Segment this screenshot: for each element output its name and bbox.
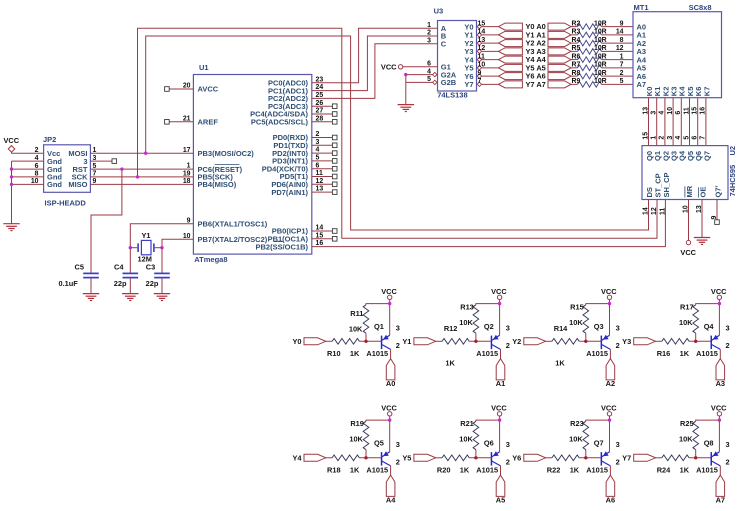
svg-text:1K: 1K bbox=[445, 359, 455, 368]
svg-text:74HC595: 74HC595 bbox=[728, 165, 737, 197]
junction VCC (Q1) bbox=[388, 302, 391, 305]
svg-text:C: C bbox=[441, 39, 447, 48]
svg-text:R13: R13 bbox=[460, 303, 474, 312]
capacitor C4 22p bbox=[114, 263, 138, 288]
ground (74LS138 enables) bbox=[398, 105, 414, 112]
svg-text:Q4: Q4 bbox=[704, 322, 715, 331]
svg-text:2: 2 bbox=[620, 70, 624, 77]
svg-text:2: 2 bbox=[616, 457, 620, 466]
svg-text:13: 13 bbox=[642, 107, 649, 115]
svg-text:MISO: MISO bbox=[68, 180, 87, 189]
net A (PC0 to 74LS138 A) bbox=[312, 28, 438, 83]
port A5 bbox=[496, 475, 505, 504]
svg-text:6: 6 bbox=[675, 111, 682, 115]
svg-text:10K: 10K bbox=[679, 318, 693, 327]
port A7 bbox=[716, 475, 725, 504]
svg-text:9: 9 bbox=[620, 20, 624, 27]
svg-text:C3: C3 bbox=[146, 263, 155, 272]
port A3 bbox=[716, 359, 725, 388]
svg-text:18: 18 bbox=[183, 178, 191, 185]
transistor Q3 A1015 bbox=[586, 322, 620, 358]
svg-text:SH_CP: SH_CP bbox=[662, 172, 671, 197]
svg-text:7: 7 bbox=[620, 62, 624, 69]
svg-text:4: 4 bbox=[659, 111, 666, 115]
svg-text:3: 3 bbox=[726, 440, 730, 449]
svg-text:OE: OE bbox=[698, 187, 707, 198]
junction VCC (Q8) bbox=[718, 418, 721, 421]
svg-text:8: 8 bbox=[35, 171, 39, 178]
svg-text:A0: A0 bbox=[386, 379, 395, 388]
ground (C3) bbox=[154, 294, 170, 301]
svg-text:Y2: Y2 bbox=[512, 337, 521, 346]
svg-text:Q3: Q3 bbox=[594, 322, 604, 331]
wire JP2 gnd pin bbox=[12, 168, 44, 170]
svg-text:VCC: VCC bbox=[711, 404, 727, 413]
svg-text:AREF: AREF bbox=[198, 118, 219, 127]
74LS138 Y0 output bubble/wire pin 15 bbox=[477, 20, 498, 28]
junction VCC (Q4) bbox=[718, 302, 721, 305]
svg-text:Y0: Y0 bbox=[292, 337, 301, 346]
G2A bubble+wire bbox=[406, 72, 437, 76]
wire MISO row JP2-U1 bbox=[90, 183, 193, 185]
resistor R24 1K bbox=[656, 455, 711, 475]
wire VCC to R13 top and emitter bbox=[499, 300, 501, 336]
wire VCC to R21 top and emitter bbox=[499, 416, 501, 452]
svg-text:16: 16 bbox=[700, 107, 707, 115]
svg-text:10R: 10R bbox=[594, 29, 607, 36]
svg-text:C5: C5 bbox=[75, 263, 84, 272]
svg-text:R14: R14 bbox=[554, 324, 568, 333]
svg-text:2: 2 bbox=[35, 147, 39, 154]
svg-text:R22: R22 bbox=[547, 466, 561, 475]
JP2 pin numbers bbox=[31, 147, 97, 185]
svg-text:1K: 1K bbox=[350, 349, 360, 358]
74LS138 Y2 output bubble/wire pin 13 bbox=[477, 37, 498, 45]
svg-text:VCC: VCC bbox=[601, 287, 617, 296]
svg-text:R15: R15 bbox=[570, 303, 584, 312]
U1 right pin names bbox=[250, 79, 308, 252]
svg-text:R4: R4 bbox=[572, 37, 581, 44]
junction G2A bbox=[404, 73, 407, 76]
svg-text:10K: 10K bbox=[349, 324, 363, 333]
svg-text:R10: R10 bbox=[327, 349, 341, 358]
svg-text:1K: 1K bbox=[570, 466, 580, 475]
svg-text:MR: MR bbox=[685, 185, 694, 197]
resistor R21 10K bbox=[459, 419, 478, 458]
VCC symbol (JP2) bbox=[4, 136, 20, 152]
resistor R6 10R bbox=[571, 53, 633, 62]
port A7 (right) bbox=[548, 81, 571, 88]
svg-text:7: 7 bbox=[700, 136, 707, 140]
svg-text:U3: U3 bbox=[434, 7, 444, 16]
port A2 bbox=[606, 359, 615, 388]
svg-text:10: 10 bbox=[31, 178, 39, 185]
svg-text:VCC: VCC bbox=[711, 287, 727, 296]
svg-text:Q7’: Q7’ bbox=[713, 185, 722, 197]
ground (C5) bbox=[83, 294, 99, 301]
74LS138 input pin numbers bbox=[427, 22, 431, 83]
net C (PC2 to 74LS138 C) bbox=[312, 44, 438, 99]
svg-text:K7: K7 bbox=[702, 87, 711, 97]
svg-text:R7: R7 bbox=[572, 62, 581, 69]
junction base (Q6) bbox=[474, 456, 477, 459]
svg-text:22p: 22p bbox=[114, 279, 127, 288]
svg-text:10R: 10R bbox=[594, 53, 607, 60]
wire SCK row JP2-U1 bbox=[90, 176, 193, 178]
transistor Q6 A1015 bbox=[476, 438, 510, 474]
svg-text:3: 3 bbox=[667, 136, 674, 140]
svg-text:A7: A7 bbox=[716, 495, 725, 504]
svg-text:1K: 1K bbox=[460, 466, 470, 475]
pin 20 AVCC stub bbox=[165, 87, 194, 92]
74LS138 Y6 output bubble/wire pin 9 bbox=[477, 70, 498, 78]
node Y2 port bbox=[512, 337, 545, 346]
svg-text:A1015: A1015 bbox=[586, 349, 608, 358]
wire MOSI row JP2-U1 bbox=[90, 152, 193, 154]
74LS138 Y4 output bubble/wire pin 11 bbox=[477, 53, 498, 61]
svg-text:VCC: VCC bbox=[601, 404, 617, 413]
svg-text:PB6(XTAL1/TOSC1): PB6(XTAL1/TOSC1) bbox=[198, 219, 268, 228]
svg-text:3: 3 bbox=[506, 324, 510, 333]
wire RST row JP2-U1 bbox=[90, 168, 193, 170]
crystal Y1 12M bbox=[130, 231, 162, 263]
junction SCK bbox=[136, 175, 139, 178]
node Y6 port bbox=[512, 454, 545, 463]
wire collector to port A6 bbox=[609, 466, 611, 475]
74LS138 Y5 output bubble/wire pin 10 bbox=[477, 62, 498, 70]
svg-text:1K: 1K bbox=[350, 466, 360, 475]
74LS138 output labels bbox=[464, 22, 474, 89]
resistor R20 1K bbox=[436, 455, 491, 475]
svg-text:Gnd: Gnd bbox=[47, 180, 62, 189]
net SCK riser (PB5 to 74HC595 ST_CP) bbox=[138, 28, 658, 238]
U1 right n/c stubs bbox=[312, 104, 337, 241]
svg-text:6: 6 bbox=[35, 163, 39, 170]
wire reset to C5 bbox=[91, 169, 122, 273]
svg-text:Q7: Q7 bbox=[594, 438, 604, 447]
wire VCC to G1 bbox=[403, 66, 438, 68]
node Y0 port bbox=[292, 337, 325, 346]
LED matrix MT1 SC8x8 box bbox=[633, 3, 722, 98]
svg-text:12: 12 bbox=[616, 45, 624, 52]
svg-text:2: 2 bbox=[506, 457, 510, 466]
capacitor C5 0.1uF bbox=[59, 263, 99, 288]
svg-text:Y3: Y3 bbox=[622, 337, 631, 346]
junction reset bbox=[120, 167, 123, 170]
svg-text:Q2: Q2 bbox=[484, 322, 494, 331]
svg-text:15: 15 bbox=[478, 20, 486, 27]
resistor R23 10K bbox=[569, 419, 588, 458]
node Y4 port bbox=[292, 454, 325, 463]
svg-text:VCC: VCC bbox=[680, 248, 696, 257]
junction dots gnd bus bbox=[10, 167, 13, 186]
svg-text:19: 19 bbox=[183, 171, 191, 178]
junction VCC (Q3) bbox=[608, 302, 611, 305]
svg-text:PB4(MISO): PB4(MISO) bbox=[198, 180, 237, 189]
svg-text:15: 15 bbox=[692, 107, 699, 115]
VCC symbol (Q6) bbox=[491, 404, 507, 416]
svg-text:5: 5 bbox=[683, 136, 690, 140]
svg-text:A1: A1 bbox=[496, 379, 505, 388]
junction base (Q5) bbox=[364, 456, 367, 459]
junction XTAL1 bbox=[129, 246, 132, 249]
port A1 bbox=[496, 359, 505, 388]
wire JP2 gnd bus bbox=[12, 160, 44, 162]
svg-text:A1015: A1015 bbox=[366, 466, 388, 475]
port A2 (right) bbox=[548, 40, 571, 47]
74LS138 Y7 output bubble/wire pin 7 bbox=[477, 78, 498, 86]
svg-text:3: 3 bbox=[726, 324, 730, 333]
capacitor C3 22p bbox=[146, 263, 170, 288]
svg-text:A1015: A1015 bbox=[476, 466, 498, 475]
svg-text:3: 3 bbox=[506, 440, 510, 449]
svg-text:14: 14 bbox=[478, 29, 486, 36]
matrix K pin numbers (rotated) bbox=[642, 107, 706, 115]
svg-text:2: 2 bbox=[659, 136, 666, 140]
wire JP2 gnd pin bbox=[12, 183, 44, 185]
74LS138 Y1 output bubble/wire pin 14 bbox=[477, 29, 498, 37]
svg-text:R20: R20 bbox=[437, 466, 451, 475]
resistor R11 10K bbox=[349, 305, 369, 342]
wire collector to port A0 bbox=[390, 349, 392, 358]
port A6 bbox=[606, 475, 615, 504]
svg-text:Y7: Y7 bbox=[464, 80, 473, 89]
junction VCC (Q5) bbox=[388, 418, 391, 421]
svg-text:ISP-HEADD: ISP-HEADD bbox=[45, 199, 87, 208]
svg-text:VCC: VCC bbox=[381, 62, 397, 71]
VCC symbol (Q2) bbox=[491, 287, 507, 299]
node Y3 port bbox=[622, 337, 655, 346]
VCC symbol (G1) bbox=[381, 62, 403, 71]
svg-text:R16: R16 bbox=[657, 349, 671, 358]
svg-text:22p: 22p bbox=[146, 279, 159, 288]
svg-text:10: 10 bbox=[667, 107, 674, 115]
port Y6 (left) bbox=[499, 73, 523, 80]
wire XTAL2 (pin10) bbox=[162, 239, 193, 272]
svg-text:R6: R6 bbox=[572, 53, 581, 60]
svg-text:2: 2 bbox=[726, 341, 730, 350]
resistor R25 10K bbox=[679, 419, 698, 458]
U1 pin numbers right bbox=[316, 76, 324, 247]
svg-text:R21: R21 bbox=[460, 419, 474, 428]
svg-text:1: 1 bbox=[620, 53, 624, 60]
wire C4 to ground bbox=[129, 278, 131, 293]
svg-text:Q8: Q8 bbox=[704, 438, 714, 447]
svg-text:SC8x8: SC8x8 bbox=[689, 3, 712, 12]
wire VCC to R19 top and emitter bbox=[389, 416, 391, 452]
svg-text:Y1: Y1 bbox=[402, 337, 411, 346]
svg-text:10R: 10R bbox=[594, 70, 607, 77]
wire VCC to R11 top and emitter bbox=[389, 300, 391, 336]
port Y1 (left) bbox=[499, 31, 523, 38]
port Y4 (left) bbox=[499, 56, 523, 63]
svg-text:5: 5 bbox=[620, 78, 624, 85]
junction base (Q3) bbox=[584, 340, 587, 343]
svg-text:10: 10 bbox=[478, 62, 486, 69]
svg-text:10R: 10R bbox=[594, 45, 607, 52]
svg-text:4: 4 bbox=[675, 136, 682, 140]
svg-text:PB2(SS/OC1B): PB2(SS/OC1B) bbox=[255, 242, 308, 251]
svg-text:MT1: MT1 bbox=[634, 3, 649, 12]
op-amp U1 ATmega8 box bbox=[193, 63, 311, 264]
VCC symbol (Q7) bbox=[601, 404, 617, 416]
net B (PC1 to 74LS138 B) bbox=[312, 36, 438, 91]
port A3 (right) bbox=[548, 48, 571, 55]
svg-text:C4: C4 bbox=[114, 263, 124, 272]
svg-text:ATmega8: ATmega8 bbox=[194, 255, 227, 264]
svg-text:A1015: A1015 bbox=[476, 349, 498, 358]
svg-text:U1: U1 bbox=[199, 63, 209, 72]
svg-text:VCC: VCC bbox=[4, 136, 20, 145]
ground (C4) bbox=[122, 294, 138, 301]
svg-text:Y7 A7: Y7 A7 bbox=[526, 80, 546, 89]
svg-text:A5: A5 bbox=[496, 495, 505, 504]
transistor Q1 A1015 bbox=[366, 322, 400, 358]
svg-text:14: 14 bbox=[616, 29, 624, 36]
svg-text:PC5(ADC5/SCL): PC5(ADC5/SCL) bbox=[251, 118, 309, 127]
svg-text:10R: 10R bbox=[594, 78, 607, 85]
svg-text:10K: 10K bbox=[349, 435, 363, 444]
matrix K labels (rotated) bbox=[645, 86, 711, 96]
svg-text:10R: 10R bbox=[594, 62, 607, 69]
svg-text:Y7: Y7 bbox=[622, 454, 631, 463]
svg-text:Q5: Q5 bbox=[374, 438, 384, 447]
svg-text:Y5: Y5 bbox=[402, 454, 411, 463]
transistor Q5 A1015 bbox=[366, 438, 400, 474]
svg-text:Y6: Y6 bbox=[512, 454, 521, 463]
transistor Q2 A1015 bbox=[476, 322, 510, 358]
svg-text:VCC: VCC bbox=[491, 404, 507, 413]
svg-text:A4: A4 bbox=[386, 495, 396, 504]
svg-text:8: 8 bbox=[620, 37, 624, 44]
svg-text:3: 3 bbox=[396, 324, 400, 333]
resistor R19 10K bbox=[349, 419, 368, 458]
port A0 bbox=[386, 359, 395, 388]
74HC595 bottom pin numbers (rotated) bbox=[643, 205, 719, 219]
svg-text:10R: 10R bbox=[594, 20, 607, 27]
wire collector to port A4 bbox=[390, 466, 392, 475]
svg-text:R19: R19 bbox=[350, 419, 364, 428]
ground (OE) bbox=[694, 238, 710, 245]
svg-text:R17: R17 bbox=[680, 303, 694, 312]
port A4 bbox=[386, 475, 396, 504]
resistor R2 10R bbox=[571, 20, 633, 29]
wire collector to port A2 bbox=[609, 349, 611, 358]
junction base (Q1) bbox=[364, 340, 367, 343]
svg-text:10R: 10R bbox=[594, 37, 607, 44]
wire XTAL1 (pin9) bbox=[130, 224, 193, 273]
wire collector to port A1 bbox=[500, 349, 502, 358]
port A4 (right) bbox=[548, 56, 571, 63]
net MOSI riser (PB3 to 74HC595 DS) bbox=[146, 36, 649, 230]
svg-text:12: 12 bbox=[478, 45, 486, 52]
svg-text:Y1: Y1 bbox=[142, 231, 151, 240]
svg-text:A6: A6 bbox=[606, 495, 615, 504]
74HC595 Q pin numbers (rotated) bbox=[642, 132, 706, 140]
svg-text:11: 11 bbox=[478, 53, 485, 60]
junction VCC (Q2) bbox=[498, 302, 501, 305]
junction VCC (Q7) bbox=[608, 418, 611, 421]
wire VCC to R23 top and emitter bbox=[609, 416, 611, 452]
decoder U3 74LS138 box bbox=[434, 7, 477, 100]
svg-text:A1015: A1015 bbox=[586, 466, 608, 475]
74HC595 Q7' stub bbox=[715, 200, 720, 225]
svg-text:VCC: VCC bbox=[491, 287, 507, 296]
svg-text:R24: R24 bbox=[657, 466, 671, 475]
pin 3 stub with square bbox=[90, 159, 116, 164]
svg-text:PB3(MOSI/OC2): PB3(MOSI/OC2) bbox=[198, 149, 255, 158]
svg-text:R8: R8 bbox=[572, 70, 581, 77]
resistor R14 1K bbox=[546, 324, 601, 368]
svg-text:1K: 1K bbox=[555, 359, 565, 368]
svg-text:2: 2 bbox=[506, 341, 510, 350]
shift register U2 74HC595 box bbox=[642, 146, 737, 200]
svg-text:Y4: Y4 bbox=[292, 454, 302, 463]
svg-text:R2: R2 bbox=[572, 20, 581, 27]
VCC symbol (Q3) bbox=[601, 287, 617, 299]
svg-text:12: 12 bbox=[651, 207, 658, 215]
svg-text:VCC: VCC bbox=[381, 404, 397, 413]
node Y7 port bbox=[622, 454, 655, 463]
svg-text:R12: R12 bbox=[444, 324, 458, 333]
wire collector to port A7 bbox=[719, 466, 721, 475]
svg-text:11: 11 bbox=[659, 208, 666, 215]
svg-text:R11: R11 bbox=[350, 309, 363, 318]
74HC595 MR stub to VCC bbox=[680, 200, 696, 258]
node Y1 port bbox=[402, 337, 435, 346]
resistor R15 10K bbox=[569, 303, 588, 342]
svg-text:R18: R18 bbox=[327, 466, 341, 475]
transistor Q7 A1015 bbox=[586, 438, 620, 474]
wire JP2 gnd pin bbox=[12, 176, 44, 178]
svg-text:10K: 10K bbox=[569, 435, 583, 444]
port Y7 (left) bbox=[499, 81, 523, 88]
svg-text:2: 2 bbox=[427, 30, 431, 37]
wire C5 to ground bbox=[90, 278, 92, 293]
svg-text:10K: 10K bbox=[569, 318, 583, 327]
svg-text:10K: 10K bbox=[459, 435, 473, 444]
node Y5 port bbox=[402, 454, 435, 463]
junction base (Q4) bbox=[694, 340, 697, 343]
svg-text:G2B: G2B bbox=[441, 78, 457, 87]
wire VCC to R17 top and emitter bbox=[718, 300, 720, 336]
svg-text:11: 11 bbox=[683, 107, 690, 114]
junction MOSI bbox=[144, 152, 147, 155]
svg-text:3: 3 bbox=[427, 37, 431, 44]
port Y5 (left) bbox=[499, 64, 523, 71]
svg-text:2: 2 bbox=[396, 341, 400, 350]
wire VCC to JP2 pin2 bbox=[12, 152, 44, 153]
VCC symbol (Q1) bbox=[381, 287, 397, 299]
svg-text:17: 17 bbox=[183, 147, 191, 154]
port A5 (right) bbox=[548, 64, 571, 71]
svg-text:R3: R3 bbox=[572, 29, 581, 36]
svg-text:R5: R5 bbox=[572, 45, 581, 52]
resistor R4 10R bbox=[571, 37, 633, 46]
svg-text:1: 1 bbox=[187, 163, 191, 170]
port A1 (right) bbox=[548, 31, 571, 38]
resistor R13 10K bbox=[459, 303, 478, 342]
wire VCC to R15 top and emitter bbox=[609, 300, 611, 336]
VCC symbol (Q4) bbox=[711, 287, 727, 299]
svg-text:10K: 10K bbox=[679, 435, 693, 444]
svg-text:Q1: Q1 bbox=[374, 322, 384, 331]
svg-text:15: 15 bbox=[642, 132, 649, 140]
port A0 (right) bbox=[548, 23, 571, 30]
port Y0 (left) bbox=[499, 23, 523, 30]
junction base (Q8) bbox=[694, 456, 697, 459]
svg-text:1K: 1K bbox=[680, 349, 690, 358]
